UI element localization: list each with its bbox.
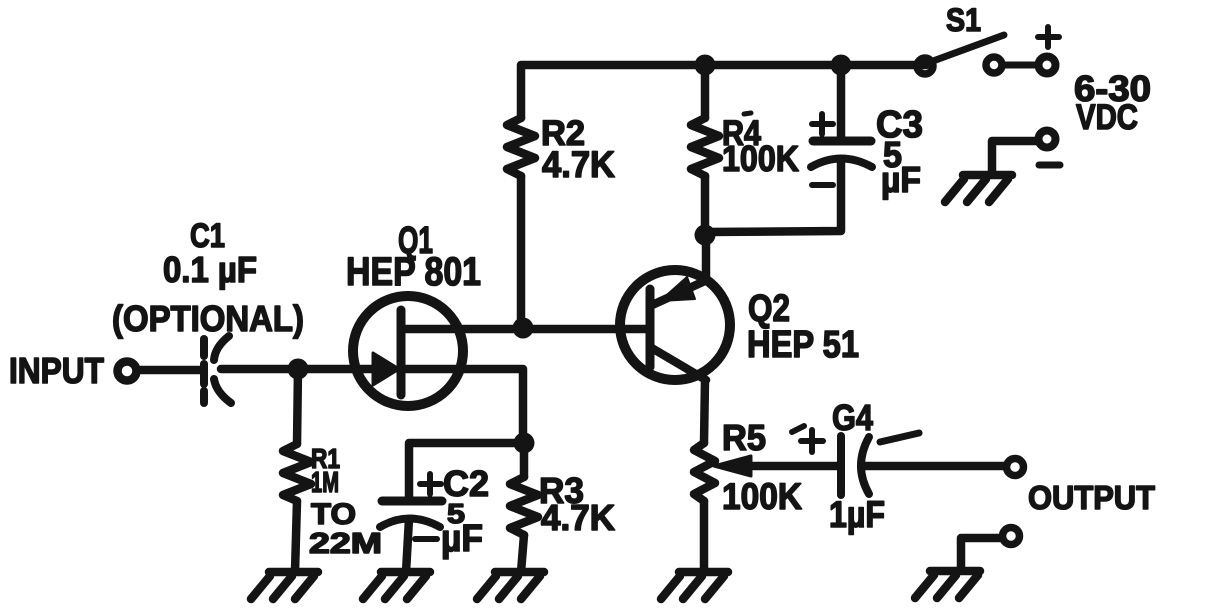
- capacitor C2 flat plate: [382, 497, 442, 506]
- svg-text:1µF: 1µF: [829, 494, 885, 535]
- svg-text:µF: µF: [881, 159, 921, 200]
- wire emitter node to Q2: [702, 235, 711, 281]
- transistor Q2 emitter arrow: [660, 277, 695, 301]
- svg-text:(OPTIONAL): (OPTIONAL): [112, 298, 304, 339]
- svg-text:INPUT: INPUT: [9, 350, 104, 391]
- svg-text:4.7K: 4.7K: [542, 144, 615, 185]
- resistor R2: [507, 118, 535, 176]
- svg-text:TO: TO: [311, 498, 356, 531]
- svg-text:100K: 100K: [722, 138, 799, 179]
- capacitor G4 minus sign: [880, 433, 919, 442]
- wire G4 to output jack: [862, 462, 1004, 471]
- svg-text:G4: G4: [832, 397, 873, 438]
- svg-text:22M: 22M: [309, 528, 382, 560]
- resistor R4: [691, 118, 719, 176]
- transistor Q2 emitter lead: [650, 280, 707, 306]
- transistor Q2 circle: [620, 270, 730, 380]
- terminal INPUT jack: [118, 362, 137, 381]
- node Q2 emitter junction: [695, 225, 716, 246]
- wire R5 wiper to G4: [745, 462, 837, 471]
- wire R3 to ground: [521, 535, 524, 572]
- node R4 top: [695, 55, 716, 76]
- capacitor C3 curved plate: [811, 159, 872, 168]
- svg-text:R5: R5: [722, 417, 766, 458]
- capacitor C3 plus sign: [812, 114, 833, 134]
- svg-text:HEP 801: HEP 801: [346, 250, 481, 294]
- wire Q1 source to bias node: [405, 369, 523, 443]
- wire input node to Q1 gate: [298, 365, 380, 374]
- wire bias node to C2: [409, 443, 524, 497]
- battery plus sign: [1038, 27, 1059, 47]
- wire Q1 drain to Q2 base: [403, 325, 646, 334]
- node source bias junction: [514, 433, 535, 454]
- resistor R1: [283, 444, 311, 501]
- wire R4 to emitter node: [701, 176, 710, 235]
- stray ink tick above R4 label: [744, 113, 751, 114]
- capacitor C1 dashed curved plate: [214, 336, 231, 403]
- terminal output ground jack: [1003, 528, 1020, 545]
- wire top supply rail: [521, 65, 926, 118]
- wire C2 to ground: [406, 519, 409, 572]
- node input/gate junction: [288, 359, 309, 380]
- resistor R3: [510, 477, 538, 535]
- svg-text:µF: µF: [441, 518, 483, 560]
- svg-text:1M: 1M: [311, 467, 339, 499]
- wire input jack to C1: [138, 366, 200, 375]
- capacitor C1 dashed flat plate: [200, 339, 208, 403]
- svg-text:S1: S1: [946, 2, 981, 38]
- switch S1 hinge contact: [917, 58, 933, 74]
- capacitor C2 plus sign: [420, 474, 441, 494]
- switch S1 blade: [933, 35, 1004, 61]
- svg-text:100K: 100K: [722, 476, 802, 517]
- capacitor C2 curved plate: [380, 519, 440, 528]
- wire bias node to R3: [520, 443, 529, 477]
- ground power supply: [945, 175, 1012, 202]
- transistor Q2 collector lead: [650, 347, 706, 380]
- wire R1 to ground: [295, 501, 297, 572]
- wire output ground: [961, 538, 1000, 568]
- resistor R5: [694, 443, 715, 501]
- wire switch to battery plus: [1003, 62, 1037, 69]
- ground R3: [477, 572, 544, 599]
- battery minus sign: [1039, 162, 1060, 169]
- capacitor G4 flat plate: [837, 436, 845, 495]
- ground C2: [363, 572, 430, 599]
- transistor Q1 channel bar: [397, 310, 406, 395]
- wire Q2 collector to R5: [704, 380, 705, 443]
- capacitor C3 flat plate: [813, 137, 871, 146]
- ground R1: [251, 572, 318, 599]
- svg-text:HEP 51: HEP 51: [747, 324, 859, 366]
- node drain of Q1 / base of Q2: [513, 318, 534, 339]
- terminal battery minus: [1039, 131, 1056, 148]
- capacitor C2 minus sign: [415, 536, 437, 542]
- capacitor G4 curved plate: [861, 437, 869, 494]
- wire node to R1: [297, 369, 298, 444]
- transistor Q2 base bar: [646, 289, 655, 367]
- switch S1 second contact: [986, 57, 1002, 73]
- terminal battery plus: [1039, 57, 1056, 74]
- wire R2 bottom to drain node: [517, 176, 526, 328]
- ground Q2/R5: [661, 572, 728, 599]
- wire C3 to emitter node: [705, 159, 841, 232]
- wire R5 to ground: [700, 501, 709, 572]
- capacitor C3 minus sign: [812, 182, 833, 188]
- R5 wiper arrow: [714, 456, 751, 476]
- svg-text:OUTPUT: OUTPUT: [1028, 479, 1155, 516]
- svg-text:VDC: VDC: [1076, 98, 1138, 137]
- wire rail to R4: [701, 65, 710, 118]
- transistor Q1 circle: [353, 296, 463, 406]
- ground output: [915, 571, 980, 598]
- svg-text:4.7K: 4.7K: [541, 497, 615, 538]
- svg-text:0.1 µF: 0.1 µF: [163, 249, 257, 290]
- transistor Q1 gate arrow: [373, 353, 399, 385]
- node C3 top: [831, 55, 852, 76]
- capacitor G4 plus sign: [792, 426, 823, 452]
- wire C1 to input node: [221, 365, 298, 374]
- wire battery minus to ground: [992, 141, 1037, 172]
- wire rail to C3: [837, 65, 846, 137]
- terminal OUTPUT jack: [1007, 459, 1024, 476]
